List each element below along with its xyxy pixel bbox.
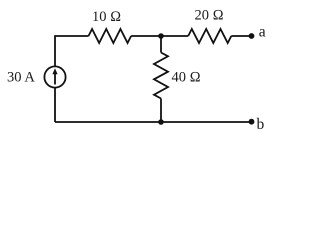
terminal b dot	[249, 119, 255, 125]
resistor R3 40 ohm (vertical zigzag)	[154, 53, 168, 99]
svg-text:20 Ω: 20 Ω	[195, 8, 224, 24]
wire R2 to terminal a	[231, 35, 251, 37]
svg-text:40 Ω: 40 Ω	[172, 70, 201, 86]
wire top-left to terminal a (top rail)	[55, 36, 89, 122]
wire middle rail bottom stub	[160, 99, 162, 123]
svg-text:10 Ω: 10 Ω	[92, 9, 121, 25]
svg-text:30 A: 30 A	[7, 70, 35, 86]
wire bottom rail to terminal b	[55, 121, 252, 123]
svg-text:b: b	[257, 116, 265, 133]
wire middle rail top stub	[160, 36, 162, 53]
resistor R1 10 ohm (horizontal zigzag)	[89, 29, 132, 43]
current source I1 circle	[44, 66, 65, 87]
svg-text:a: a	[259, 24, 266, 41]
node junction bottom	[158, 119, 164, 125]
node junction top	[158, 33, 164, 39]
terminal a dot	[249, 33, 255, 39]
current source arrow	[54, 73, 56, 85]
wire between R1 and R2 through node	[131, 35, 188, 37]
resistor R2 20 ohm (horizontal zigzag)	[188, 29, 231, 43]
